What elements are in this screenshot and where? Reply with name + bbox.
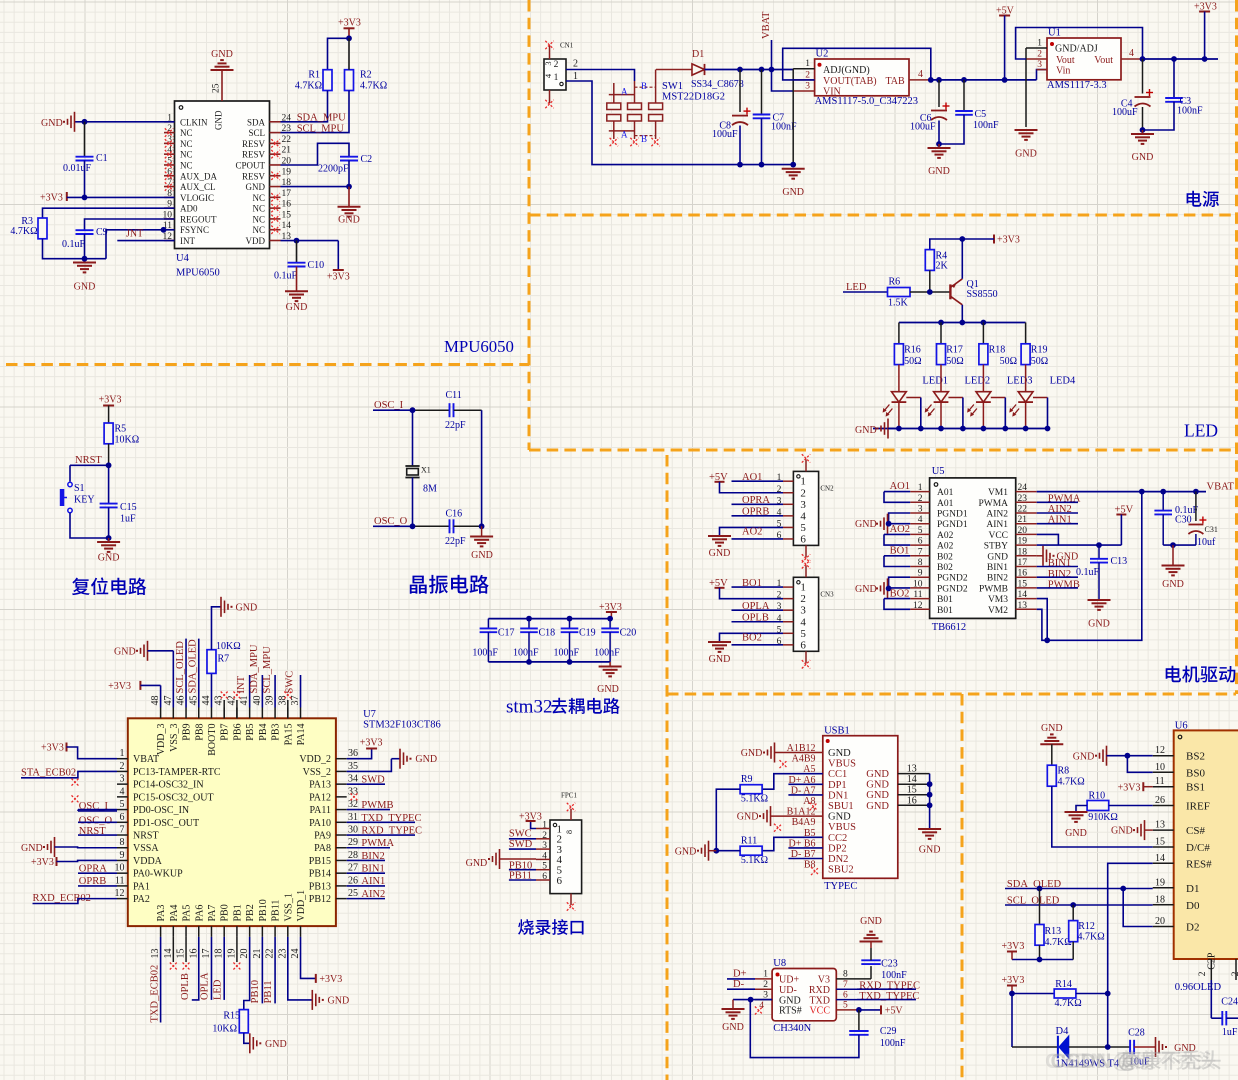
wire to +3V3 down: [337, 241, 339, 270]
svg-text:GND/ADJ: GND/ADJ: [1055, 44, 1098, 55]
svg-text:15: 15: [1155, 837, 1165, 848]
wire bs0 loop: [1127, 756, 1152, 773]
x-mark u7 pin3: [72, 779, 79, 786]
power +3V3 vdd1: [315, 974, 317, 983]
svg-text:NC: NC: [180, 128, 193, 138]
svg-text:47: 47: [163, 696, 174, 706]
junction C9/GND: [82, 256, 88, 262]
connector USB1 TYPEC body: [823, 736, 898, 879]
svg-text:GND: GND: [782, 187, 804, 198]
svg-text:BO2: BO2: [742, 633, 762, 644]
svg-text:4.7KΩ: 4.7KΩ: [1045, 937, 1072, 948]
svg-text:37: 37: [290, 696, 301, 706]
resistor R13 4.7K: [1039, 889, 1041, 925]
resistor R2: [345, 70, 354, 91]
svg-text:GND: GND: [860, 916, 882, 927]
wire oled pin2 to C24: [1210, 980, 1212, 1018]
svg-text:D1: D1: [1186, 883, 1199, 895]
svg-text:PB2: PB2: [245, 904, 256, 921]
svg-text:BIN1: BIN1: [1048, 558, 1071, 569]
svg-text:28: 28: [348, 850, 358, 861]
svg-text:RESV: RESV: [242, 150, 266, 160]
IC U7 STM32F103CT86 body: [128, 718, 336, 926]
svg-text:11: 11: [913, 590, 922, 600]
svg-text:U1: U1: [1048, 28, 1061, 39]
section title 烧录接口: [518, 919, 534, 935]
CN1 top stub: [549, 45, 551, 59]
svg-text:100nF: 100nF: [973, 120, 999, 131]
svg-text:VBAT: VBAT: [761, 11, 772, 39]
svg-text:8: 8: [120, 837, 125, 848]
svg-text:16: 16: [188, 949, 199, 959]
svg-text:50Ω: 50Ω: [1031, 356, 1048, 367]
svg-text:PC13-TAMPER-RTC: PC13-TAMPER-RTC: [133, 767, 221, 778]
+5V rail: [931, 79, 1037, 81]
svg-text:0.01uF: 0.01uF: [63, 163, 92, 174]
capacitor C29 100nF: [858, 1010, 860, 1031]
transistor Q1 SS8550: [949, 284, 951, 299]
svg-text:B02: B02: [937, 563, 953, 573]
svg-text:PA1: PA1: [133, 881, 150, 892]
svg-text:BIN1: BIN1: [987, 563, 1008, 573]
resistor R9 5.1K: [740, 785, 762, 794]
svg-text:31: 31: [348, 812, 358, 823]
svg-text:CS#: CS#: [1186, 825, 1205, 837]
resistor R18 50Ω: [979, 344, 988, 365]
junction led anode: [938, 426, 944, 432]
svg-text:PA15: PA15: [283, 724, 294, 746]
svg-text:5.1KΩ: 5.1KΩ: [741, 794, 768, 805]
x-mark u7 pin4: [72, 795, 79, 802]
capacitor C9: [76, 229, 94, 231]
svg-text:3: 3: [800, 499, 806, 511]
svg-text:50Ω: 50Ω: [904, 356, 921, 367]
wire cn2 pin5 gnd: [720, 527, 784, 536]
section border 电源 bottom: [529, 214, 1236, 217]
wire C10 top: [296, 241, 298, 263]
svg-text:BO1: BO1: [890, 546, 910, 557]
svg-text:2: 2: [554, 60, 559, 70]
wire U4 pin18 GND: [281, 186, 350, 188]
svg-text:2: 2: [573, 59, 578, 70]
svg-text:GND: GND: [1162, 579, 1184, 590]
junction c31: [1193, 489, 1199, 495]
svg-text:AO2: AO2: [742, 527, 762, 538]
junction pin8: [82, 195, 88, 201]
svg-text:GND: GND: [265, 1039, 287, 1050]
svg-text:+3V3: +3V3: [1002, 941, 1025, 952]
svg-text:NC: NC: [180, 139, 193, 149]
svg-text:NC: NC: [252, 225, 265, 235]
svg-text:GND: GND: [21, 843, 43, 854]
svg-text:21: 21: [252, 949, 263, 959]
svg-text:14: 14: [1155, 853, 1165, 864]
capacitor C19 100nF: [569, 619, 571, 629]
svg-text:R16: R16: [904, 345, 921, 356]
svg-text:VDDA: VDDA: [133, 856, 163, 867]
junction C6: [936, 77, 942, 83]
svg-text:NC: NC: [252, 193, 265, 203]
wire CN1 pin1 bottom rail: [566, 81, 793, 165]
svg-text:S1: S1: [74, 483, 85, 494]
svg-text:SS8550: SS8550: [967, 289, 998, 300]
wire R19 to LED4: [1025, 365, 1027, 392]
wire u5 pin6 loop: [884, 534, 910, 545]
x-mark u8 rts: [755, 1007, 763, 1015]
x-mark u7 pin38: [287, 700, 289, 718]
svg-text:44: 44: [201, 696, 212, 706]
svg-text:10KΩ: 10KΩ: [212, 1024, 237, 1035]
wire res vertical bottom: [1107, 994, 1109, 1048]
svg-text:20: 20: [1018, 526, 1028, 536]
wire R18 to LED3: [982, 365, 984, 392]
junction pin1/C1: [82, 119, 88, 125]
svg-text:24: 24: [290, 949, 301, 959]
section border motor left / bottom-left vertical: [666, 455, 669, 1080]
svg-text:A: A: [621, 87, 628, 97]
svg-text:GND: GND: [1041, 723, 1063, 734]
svg-text:VM1: VM1: [988, 488, 1008, 498]
svg-text:2: 2: [805, 71, 810, 81]
svg-text:26: 26: [1155, 795, 1165, 806]
svg-text:R14: R14: [1055, 979, 1072, 990]
svg-text:GND: GND: [866, 790, 889, 801]
junction pin13: [294, 238, 300, 244]
resistor R12 4.7K: [1072, 905, 1074, 921]
svg-text:SDA_MPU: SDA_MPU: [249, 644, 260, 693]
svg-text:9: 9: [120, 850, 125, 861]
svg-text:VDD_3: VDD_3: [156, 724, 167, 756]
svg-text:3: 3: [1037, 60, 1042, 70]
svg-text:5: 5: [800, 628, 806, 640]
svg-text:7: 7: [120, 825, 125, 836]
svg-text:C5: C5: [975, 109, 987, 120]
wire S1 bottom: [70, 513, 109, 538]
GND signal r15: [259, 1042, 261, 1044]
junction C7 top: [759, 67, 765, 73]
U6 pins: [1153, 755, 1174, 757]
svg-text:REGOUT: REGOUT: [180, 214, 217, 224]
junction rail r17: [938, 320, 944, 326]
svg-text:GND: GND: [246, 182, 266, 192]
connector CN1: [544, 59, 566, 90]
svg-text:5: 5: [918, 526, 923, 536]
svg-text:4: 4: [1129, 48, 1134, 59]
svg-text:11: 11: [115, 875, 125, 886]
svg-text:GND: GND: [41, 118, 63, 129]
svg-text:C23: C23: [881, 959, 898, 970]
VBAT rail u5: [1037, 491, 1206, 493]
svg-text:SDA: SDA: [247, 117, 266, 127]
capacitor C30: [1162, 492, 1164, 511]
svg-text:U6: U6: [1175, 721, 1188, 732]
wire U2 ADJ to GND: [792, 69, 794, 165]
svg-text:BS1: BS1: [1186, 782, 1205, 794]
svg-text:14: 14: [282, 221, 292, 231]
junction C8 top: [737, 67, 743, 73]
x-mark usb A8: [810, 803, 818, 811]
U2 pin 4 stub: [909, 79, 931, 81]
svg-text:14: 14: [1018, 590, 1028, 600]
svg-text:4: 4: [759, 1001, 764, 1011]
svg-text:STBY: STBY: [984, 542, 1008, 552]
svg-text:1.5K: 1.5K: [888, 298, 909, 309]
IC U5 TB6612 body: [930, 478, 1016, 619]
switch SW1 MST22D18G2: [607, 103, 621, 110]
wire c30 c31 bottom: [1163, 544, 1196, 546]
wire U4 pin11 FSYNC: [106, 230, 175, 259]
svg-text:6: 6: [120, 812, 125, 823]
section title 电机驱动: [1166, 666, 1181, 683]
wire to GND: [348, 187, 350, 207]
wire VCC STBY to +5V: [1037, 534, 1059, 545]
svg-text:GND: GND: [1073, 752, 1095, 763]
svg-text:PC14-OSC32_IN: PC14-OSC32_IN: [133, 780, 204, 791]
svg-text:19: 19: [226, 949, 237, 959]
LED3: [976, 392, 991, 402]
svg-text:12: 12: [1155, 745, 1165, 756]
svg-text:PA4: PA4: [169, 905, 180, 922]
svg-text:PB14: PB14: [309, 869, 331, 880]
wire +3V3 rail to R4: [930, 239, 963, 250]
svg-text:Vin: Vin: [1056, 66, 1070, 77]
svg-text:DP2: DP2: [828, 843, 847, 854]
svg-text:R7: R7: [218, 654, 230, 665]
wire usb DN2: [788, 858, 822, 860]
svg-text:A8: A8: [803, 796, 815, 807]
ground GND u8: [722, 1008, 745, 1010]
svg-text:PB8: PB8: [194, 724, 205, 741]
svg-text:MPU6050: MPU6050: [176, 268, 220, 279]
svg-text:B01: B01: [937, 595, 953, 605]
wire GND to U4 pin1: [75, 121, 175, 123]
svg-text:AO1: AO1: [890, 481, 910, 492]
junction pin18 GND: [346, 184, 352, 190]
wire +5V rail to U1 VIN: [1037, 70, 1048, 80]
svg-text:15: 15: [907, 785, 917, 796]
svg-text:GND: GND: [828, 748, 851, 759]
svg-text:4.7KΩ: 4.7KΩ: [360, 81, 387, 92]
capacitor C8 100uF: [739, 70, 741, 113]
resistor R3: [38, 218, 47, 239]
svg-text:PGND2: PGND2: [937, 584, 968, 594]
svg-text:JNT: JNT: [126, 229, 143, 240]
svg-text:SS34_C8678: SS34_C8678: [691, 79, 744, 90]
capacitor C5 100nF: [963, 80, 965, 111]
svg-text:4: 4: [918, 515, 923, 525]
svg-text:VLOGIC: VLOGIC: [180, 193, 214, 203]
svg-text:34: 34: [348, 774, 358, 785]
svg-text:U2: U2: [816, 49, 829, 60]
svg-text:VDD_1: VDD_1: [296, 890, 307, 922]
LED bottom rail: [873, 428, 1048, 430]
svg-text:1: 1: [805, 59, 810, 69]
junction FSYNC: [161, 227, 167, 233]
svg-text:5: 5: [843, 1001, 848, 1011]
svg-text:C16: C16: [446, 509, 463, 520]
svg-text:GND: GND: [328, 996, 350, 1007]
svg-text:19: 19: [282, 167, 292, 177]
svg-text:DN2: DN2: [828, 854, 848, 865]
svg-text:GND: GND: [114, 647, 136, 658]
junction rail a: [928, 77, 934, 83]
x-mark usb B4A9: [774, 824, 782, 832]
USB1 right GND pins: [898, 773, 930, 775]
svg-text:CC1: CC1: [828, 769, 847, 780]
ground GND c30: [1172, 545, 1174, 565]
junction C8 bottom: [737, 162, 743, 168]
svg-text:PB11: PB11: [271, 900, 282, 922]
svg-text:R6: R6: [889, 277, 901, 288]
svg-text:GND: GND: [74, 282, 96, 293]
U4 NC x-marks right: [271, 139, 279, 147]
section border LED bottom: [529, 449, 1236, 452]
svg-text:R17: R17: [946, 345, 963, 356]
junction u8 vcc: [856, 1007, 862, 1013]
section border motor bottom: [667, 693, 1236, 696]
svg-text:13: 13: [907, 764, 917, 775]
capacitor C24 1uF: [1221, 1011, 1223, 1025]
svg-text:3: 3: [167, 135, 172, 145]
svg-text:D0: D0: [1186, 900, 1200, 912]
capacitor C17 100nF: [487, 619, 489, 629]
section title 晶振电路: [410, 576, 427, 594]
svg-text:38: 38: [277, 696, 288, 706]
svg-text:AIN1: AIN1: [986, 520, 1008, 530]
junction +3V3: [1202, 56, 1208, 62]
svg-text:VDD_2: VDD_2: [299, 754, 331, 765]
wire C16 right: [454, 525, 482, 527]
svg-text:C28: C28: [1128, 1028, 1145, 1039]
watermark chinese ghost: [1116, 1050, 1136, 1070]
svg-text:R19: R19: [1031, 345, 1048, 356]
crystal X1 8M: [405, 465, 419, 467]
svg-text:CLKIN: CLKIN: [180, 117, 208, 127]
IC U6 OLED body: [1174, 730, 1238, 959]
svg-text:23: 23: [277, 949, 288, 959]
capacitor C23 100nF: [870, 966, 872, 979]
svg-text:VBAT: VBAT: [1207, 482, 1235, 493]
svg-text:CH340N: CH340N: [773, 1023, 811, 1034]
wire C10 bottom: [296, 267, 298, 292]
svg-text:OPLB: OPLB: [180, 973, 191, 1000]
svg-text:C17: C17: [498, 628, 515, 639]
svg-text:AMS1117-5.0_C347223: AMS1117-5.0_C347223: [815, 96, 918, 107]
svg-text:29: 29: [348, 837, 358, 848]
svg-text:1uF: 1uF: [120, 514, 136, 525]
junction rail q1: [959, 320, 965, 326]
svg-text:43: 43: [214, 696, 225, 706]
svg-text:OSC_I: OSC_I: [374, 400, 404, 411]
connector FPC1: [550, 820, 582, 894]
svg-text:TAB: TAB: [886, 76, 906, 87]
svg-text:VBUS: VBUS: [828, 759, 856, 770]
svg-text:R13: R13: [1045, 926, 1062, 937]
svg-text:1: 1: [1037, 39, 1042, 49]
svg-text:GND: GND: [597, 684, 619, 695]
ground GND cn2: [708, 535, 731, 537]
svg-text:PB3: PB3: [271, 724, 282, 741]
svg-text:40: 40: [252, 696, 263, 706]
section border right edge: [1235, 0, 1238, 694]
svg-text:CPOUT: CPOUT: [235, 160, 265, 170]
resistor R11 5.1K: [740, 846, 762, 855]
svg-text:C1: C1: [96, 153, 108, 164]
U8 pin stubs left: [755, 978, 772, 980]
wire R1 to SDA: [281, 91, 328, 122]
svg-text:U8: U8: [773, 958, 786, 969]
svg-text:SBU2: SBU2: [828, 865, 854, 876]
svg-text:R8: R8: [1058, 766, 1070, 777]
junction base: [927, 289, 933, 295]
wire R2 to SCL: [281, 91, 350, 133]
svg-text:+3V3: +3V3: [1002, 975, 1025, 986]
section border usb/oled divider: [961, 694, 964, 1080]
ground GND above C23: [870, 942, 872, 949]
svg-text:B: B: [641, 134, 647, 144]
svg-text:GND: GND: [1015, 149, 1037, 160]
svg-text:TYPEC: TYPEC: [824, 881, 857, 892]
IC U1 AMS1117-3.3: [1047, 38, 1121, 80]
U8 pin stubs right: [836, 978, 871, 980]
svg-text:R18: R18: [989, 345, 1006, 356]
wire C1 to +3V3 junction: [84, 161, 86, 198]
capacitor C16 22pF: [449, 519, 451, 533]
svg-text:7: 7: [918, 547, 923, 557]
svg-text:BOOT0: BOOT0: [207, 724, 218, 756]
svg-text:22pF: 22pF: [445, 536, 466, 547]
svg-text:GND: GND: [855, 425, 877, 436]
svg-text:2: 2: [167, 124, 172, 134]
svg-text:18: 18: [214, 949, 225, 959]
svg-text:4: 4: [918, 69, 923, 80]
IC U4 MPU6050 body: [175, 101, 270, 249]
svg-text:16: 16: [1018, 569, 1028, 579]
svg-text:GND: GND: [236, 603, 258, 614]
svg-text:4: 4: [800, 616, 806, 628]
junction dec top: [607, 616, 613, 622]
junction stby c13: [1096, 542, 1102, 548]
resistor R7 10K boot0: [210, 673, 212, 707]
svg-text:910KΩ: 910KΩ: [1088, 812, 1118, 823]
svg-text:5.1KΩ: 5.1KΩ: [741, 855, 768, 866]
svg-text:SW1: SW1: [662, 81, 683, 92]
svg-text:D4: D4: [1056, 1026, 1070, 1037]
svg-text:22: 22: [1018, 505, 1028, 515]
svg-text:PGND1: PGND1: [937, 520, 968, 530]
svg-text:0.96OLED: 0.96OLED: [1175, 982, 1222, 993]
wire rail to R17: [940, 323, 942, 344]
svg-text:5: 5: [542, 862, 547, 872]
wire u5 pins3-4 gnd: [889, 513, 911, 524]
wire VBAT to U2 VIN: [772, 70, 794, 92]
junction C5: [961, 77, 967, 83]
svg-text:PA14: PA14: [296, 724, 307, 746]
wire r14 down to d4 row: [1011, 994, 1013, 1048]
svg-text:LED1: LED1: [922, 376, 948, 387]
svg-text:21: 21: [1018, 515, 1028, 525]
svg-text:LED: LED: [1184, 421, 1218, 441]
svg-text:6: 6: [918, 537, 923, 547]
svg-text:+3V3: +3V3: [319, 974, 342, 985]
decoupling bottom rail: [488, 661, 610, 663]
svg-text:1: 1: [918, 483, 923, 493]
svg-text:14: 14: [163, 949, 174, 959]
wire u5 pins9-10 gnd: [889, 577, 911, 588]
svg-text:DN1: DN1: [828, 790, 848, 801]
wire U2 VOUT feedback loop: [783, 48, 931, 80]
junction led anode: [981, 426, 987, 432]
